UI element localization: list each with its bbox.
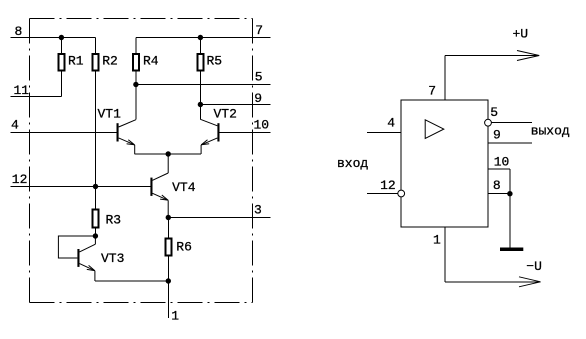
svg-text:выход: выход [531, 124, 570, 139]
svg-text:вход: вход [337, 156, 368, 171]
svg-text:12: 12 [380, 178, 396, 193]
svg-text:9: 9 [254, 91, 262, 106]
svg-text:8: 8 [15, 24, 23, 39]
svg-text:1: 1 [171, 309, 179, 324]
svg-text:8: 8 [493, 178, 501, 193]
svg-text:7: 7 [255, 23, 263, 38]
svg-text:VT2: VT2 [214, 107, 237, 122]
svg-text:R2: R2 [102, 53, 118, 68]
svg-text:−U: −U [526, 259, 542, 274]
svg-text:7: 7 [428, 83, 436, 98]
svg-text:R4: R4 [143, 53, 159, 68]
svg-text:11: 11 [14, 83, 30, 98]
svg-text:VT1: VT1 [98, 107, 122, 122]
svg-text:R1: R1 [68, 53, 84, 68]
svg-text:1: 1 [433, 232, 441, 247]
svg-text:VT3: VT3 [101, 251, 124, 266]
svg-text:R3: R3 [106, 213, 122, 228]
svg-text:10: 10 [494, 154, 510, 169]
svg-text:R6: R6 [176, 240, 192, 255]
svg-text:9: 9 [493, 128, 501, 143]
svg-text:5: 5 [255, 69, 263, 84]
svg-text:4: 4 [11, 117, 19, 132]
svg-text:12: 12 [12, 172, 28, 187]
svg-text:VT4: VT4 [172, 180, 196, 195]
svg-text:+U: +U [513, 26, 529, 41]
svg-text:3: 3 [254, 203, 262, 218]
svg-text:4: 4 [387, 115, 395, 130]
svg-text:5: 5 [490, 105, 498, 120]
svg-text:R5: R5 [207, 53, 223, 68]
svg-text:10: 10 [254, 118, 270, 133]
